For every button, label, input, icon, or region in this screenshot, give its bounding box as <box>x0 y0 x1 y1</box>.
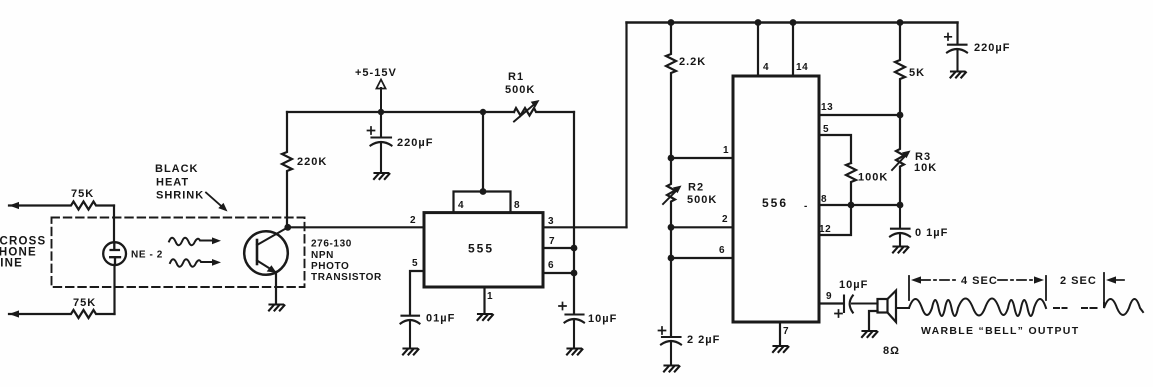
svg-text:TRANSISTOR: TRANSISTOR <box>311 272 382 283</box>
svg-text:2: 2 <box>410 215 416 226</box>
op-amp U2 556 box <box>733 76 819 322</box>
svg-text:500K: 500K <box>687 194 717 206</box>
capacitor 220uF left <box>371 112 392 171</box>
wire V+ rail <box>287 111 514 113</box>
wire pin8 556 <box>819 204 900 206</box>
neon lamp NE-2 <box>103 242 126 265</box>
wire pin13 556 <box>819 114 900 116</box>
wire pin3 riser <box>625 23 627 228</box>
svg-text:HEAT: HEAT <box>156 177 189 189</box>
node R2 pin2 <box>668 224 675 231</box>
node rail pin14 <box>790 19 797 26</box>
wire pin6 556 <box>671 257 733 259</box>
svg-text:SHRINK: SHRINK <box>156 190 204 202</box>
wire lamp to 75K-bottom <box>113 265 115 314</box>
svg-text:13: 13 <box>821 102 833 113</box>
svg-text:75K: 75K <box>71 188 94 200</box>
ground pin7 556 <box>773 346 788 352</box>
node rail 5K <box>897 19 904 26</box>
wire pin5 556 <box>819 135 851 163</box>
dashed enclosure box <box>52 218 305 288</box>
wire emitter down <box>275 273 277 303</box>
svg-text:5: 5 <box>412 258 418 269</box>
ground pin1 555 <box>478 314 493 320</box>
svg-text:1: 1 <box>723 145 729 156</box>
svg-text:8: 8 <box>821 194 827 205</box>
wire speaker ground lead <box>869 311 878 330</box>
capacitor 2.2uF <box>661 337 681 364</box>
plus 220uF right <box>945 34 952 41</box>
node V+ at bracket <box>480 109 486 115</box>
node V+ at supply <box>378 109 384 115</box>
svg-text:LINE: LINE <box>0 258 23 270</box>
wire pin1 555 <box>483 287 485 313</box>
wire supply drop to pins 4-8 <box>482 112 484 192</box>
dimension arrow 4sec left <box>911 276 958 283</box>
svg-text:276-130: 276-130 <box>311 239 352 250</box>
plus 2.2uF <box>659 327 666 334</box>
wire 75K-top to lamp <box>113 206 115 243</box>
ground 2.2uF <box>664 366 679 372</box>
waveform warble burst 1 <box>897 299 1046 317</box>
wire pin4-8 bracket <box>454 192 511 213</box>
node pin6 556 <box>668 255 675 262</box>
wire pin2 555 <box>288 226 424 228</box>
svg-text:10µF: 10µF <box>839 279 868 291</box>
svg-text:500K: 500K <box>505 84 535 96</box>
capacitor 01uF <box>401 316 420 347</box>
op-amp U1 555 box <box>424 213 543 287</box>
capacitor 0.1uF <box>890 205 910 245</box>
svg-text:10K: 10K <box>914 162 937 174</box>
svg-text:7: 7 <box>549 236 555 247</box>
ground emitter <box>269 305 284 311</box>
svg-text:5: 5 <box>823 124 829 135</box>
light arrow 1 <box>169 237 221 245</box>
svg-text:8: 8 <box>514 200 520 211</box>
svg-text:NPN: NPN <box>311 250 334 261</box>
svg-text:4: 4 <box>763 62 769 73</box>
svg-text:9: 9 <box>826 291 832 302</box>
plus 10uF at 555 <box>559 303 566 310</box>
resistor 75K top <box>9 202 114 210</box>
dimension bar 2sec <box>1103 273 1105 302</box>
svg-text:6: 6 <box>548 260 554 271</box>
wire pin14 stub <box>792 23 794 77</box>
wire pin12 556 <box>819 205 851 235</box>
wire pin5 555 <box>410 271 424 314</box>
wire pin4 stub <box>757 23 759 77</box>
svg-text:8Ω: 8Ω <box>883 345 900 357</box>
svg-text:2: 2 <box>722 214 728 225</box>
svg-text:R1: R1 <box>508 71 524 83</box>
phototransistor base bar <box>256 240 259 264</box>
wire pin7 556 <box>779 322 781 345</box>
resistor 75K bottom <box>9 310 115 318</box>
node rail 2.2K <box>668 19 675 26</box>
supply +5-15V arrow <box>376 80 385 113</box>
rheostat R2 500K <box>663 158 682 227</box>
svg-text:WARBLE “BELL” OUTPUT: WARBLE “BELL” OUTPUT <box>921 325 1079 337</box>
svg-text:14: 14 <box>796 62 808 73</box>
node pin7 junction <box>571 245 578 252</box>
svg-text:7: 7 <box>783 326 789 337</box>
wire R1 drop to pins 7-6 <box>573 112 575 313</box>
svg-text:BLACK: BLACK <box>155 163 199 175</box>
dimension arrow 4sec right <box>998 276 1044 283</box>
svg-text:555: 555 <box>468 242 494 256</box>
plus 10uF speaker <box>835 310 842 317</box>
phototransistor collector lead <box>257 228 288 246</box>
rheostat R1 500K <box>514 100 574 122</box>
svg-text:556: 556 <box>762 196 788 210</box>
ground 10uF at 555 <box>567 349 582 355</box>
wire rail corner to 220uF right <box>956 23 958 44</box>
svg-text:12: 12 <box>819 224 831 235</box>
ground speaker <box>862 331 877 337</box>
svg-text:6: 6 <box>719 245 725 256</box>
node pin8 R3 <box>897 202 904 209</box>
svg-text:220µF: 220µF <box>974 42 1010 54</box>
resistor 220K <box>282 112 292 227</box>
svg-text:2 2µF: 2 2µF <box>687 334 720 346</box>
svg-text:R2: R2 <box>688 182 704 194</box>
node pin6 junction <box>571 270 578 277</box>
dimension bar right <box>1045 276 1047 300</box>
svg-text:100K: 100K <box>858 172 888 184</box>
svg-text:0 1µF: 0 1µF <box>915 227 948 239</box>
ground 01uF <box>403 349 418 355</box>
svg-text:1: 1 <box>487 291 493 302</box>
resistor 100K <box>846 163 856 205</box>
dimension bar left <box>908 276 910 300</box>
svg-text:2 SEC: 2 SEC <box>1060 275 1097 287</box>
node rail pin4 <box>755 19 762 26</box>
plus 220uF left <box>368 127 375 134</box>
wire top rail <box>627 21 958 23</box>
wire pin9 556 <box>819 302 843 304</box>
wire pin1 556 <box>671 157 733 159</box>
svg-text:PHOTO: PHOTO <box>311 261 349 272</box>
svg-text:01µF: 01µF <box>426 313 455 325</box>
ground 220uF right <box>951 72 966 78</box>
svg-text:4: 4 <box>458 200 464 211</box>
resistor 2.2K <box>666 23 676 159</box>
ground 0.1uF <box>893 247 908 253</box>
svg-text:10µF: 10µF <box>588 313 617 325</box>
node bracket top <box>480 188 487 195</box>
wire pin7 555 <box>543 247 574 249</box>
capacitor 10uF at 555 <box>565 315 585 348</box>
wire pin6 555 <box>543 272 574 274</box>
wire down to 2.2uF <box>670 227 672 335</box>
dimension arrow 2sec <box>1106 276 1124 283</box>
node 100K pin8 <box>848 202 855 209</box>
svg-text:2.2K: 2.2K <box>679 56 706 68</box>
phototransistor emitter lead <box>257 261 277 273</box>
wire pin3 555 <box>543 226 627 228</box>
rheostat R3 10K <box>892 115 911 205</box>
speaker LS1 <box>878 291 897 323</box>
waveform warble burst 2 <box>1104 299 1143 315</box>
svg-text:220µF: 220µF <box>397 137 433 149</box>
svg-text:-: - <box>804 201 807 212</box>
resistor 5K <box>895 23 905 116</box>
svg-text:+5-15V: +5-15V <box>355 67 397 79</box>
capacitor 10uF speaker <box>844 296 878 313</box>
leader arrow heat-shrink <box>206 193 228 212</box>
svg-text:75K: 75K <box>73 297 96 309</box>
svg-text:220K: 220K <box>297 156 327 168</box>
phototransistor Q1 body <box>244 231 288 275</box>
node collector junction <box>284 224 291 231</box>
svg-text:NE - 2: NE - 2 <box>131 250 163 261</box>
node pin13 5K R3 <box>897 112 904 119</box>
capacitor 220uF right <box>947 45 967 70</box>
svg-text:5K: 5K <box>909 67 925 79</box>
wire pin2 556 <box>671 226 733 228</box>
svg-text:3: 3 <box>548 216 554 227</box>
svg-text:4 SEC: 4 SEC <box>961 275 998 287</box>
light arrow 2 <box>170 259 221 267</box>
ground 220uF left <box>374 173 389 179</box>
node 2.2K R2 pin1 <box>668 155 675 162</box>
wire speaker output stub <box>896 307 909 309</box>
wire gap dashes <box>1054 307 1097 309</box>
